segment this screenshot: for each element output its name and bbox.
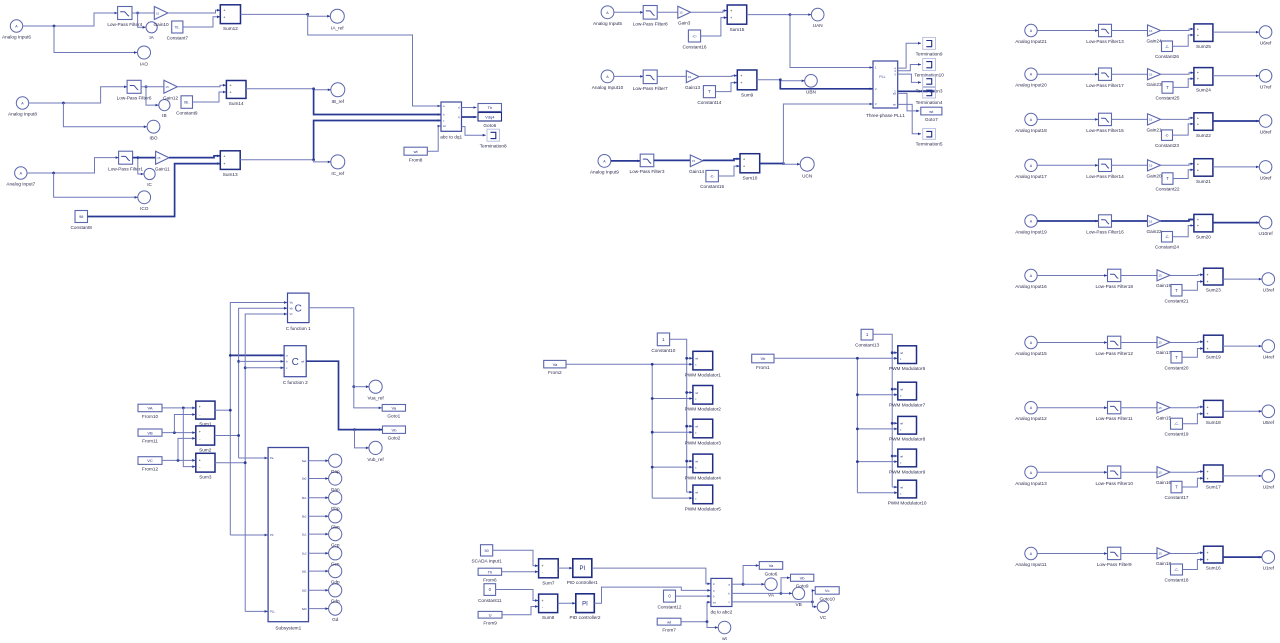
wire Gain3 to Sum15 (691, 9, 727, 12)
svg-text:Low-Pass Filter16: Low-Pass Filter16 (1086, 230, 1124, 235)
wire Analog Input18 to Low-Pass Filter15 (1037, 118, 1098, 121)
analog input Analog Input8 (8, 97, 37, 117)
wire PLL to Termination5 (898, 104, 921, 135)
svg-text:Sum15: Sum15 (730, 27, 745, 32)
junction (651, 466, 654, 469)
wire Analog Input16 to Low-Pass Filter18 (1037, 274, 1107, 277)
wire VB to Sum1 input 2 (174, 413, 195, 433)
analog input Analog Input10 (592, 70, 624, 90)
sum Sum13 (220, 151, 240, 177)
svg-text:Sum21: Sum21 (1196, 179, 1211, 184)
svg-text:SCADA Input1: SCADA Input1 (471, 558, 502, 563)
constant Constant7 (167, 21, 189, 40)
sum Sum15 (727, 5, 747, 32)
wire Analog Input8 to Low-Pass Filter6 (29, 86, 127, 104)
svg-text:C: C (292, 357, 299, 368)
svg-text:C function 1: C function 1 (286, 326, 311, 331)
wire C function 1 output (309, 308, 354, 387)
output port U9ref (1259, 161, 1272, 181)
svg-text:Low-Pass Filter15: Low-Pass Filter15 (1086, 128, 1124, 133)
svg-text:Low-Pass Filter6: Low-Pass Filter6 (117, 96, 152, 101)
wire Low-Pass Filter15 to Gain21 (1112, 118, 1148, 120)
svg-text:Analog Input5: Analog Input5 (593, 21, 622, 26)
gain Gain11 (155, 151, 170, 171)
output port U4ref (1262, 340, 1275, 360)
wire Analog Input19 to Low-Pass Filter16 (1037, 220, 1098, 223)
svg-text:Constant16: Constant16 (683, 44, 707, 49)
svg-text:VC: VC (147, 458, 153, 463)
svg-text:+: + (730, 9, 732, 13)
svg-text:From9: From9 (483, 620, 497, 625)
svg-text:Vdq4: Vdq4 (485, 115, 495, 120)
svg-text:PWM Modulator7: PWM Modulator7 (889, 403, 926, 408)
goto/from tag From1 (752, 354, 774, 370)
svg-text:Gain14: Gain14 (689, 169, 705, 174)
wire Sum1 output to bus A (215, 409, 230, 411)
svg-text:Constant9: Constant9 (176, 111, 198, 116)
svg-text:15: 15 (688, 75, 692, 79)
svg-text:Gain3: Gain3 (678, 21, 691, 26)
svg-text:15: 15 (156, 11, 160, 15)
low-pass filter Low-Pass Filter10 (1095, 466, 1133, 486)
wire abc to dq1 d output (462, 106, 477, 109)
output port IA (146, 22, 157, 41)
svg-text:Vua_ref: Vua_ref (367, 396, 384, 401)
constant Constant9 (176, 96, 198, 116)
wire signal to PWM Modulator6 (857, 357, 897, 360)
wire PID controller2 to dq to abc2 (594, 587, 710, 603)
output port U7ref (1259, 70, 1272, 90)
svg-text:Sd3: Sd3 (302, 607, 307, 611)
gain Gain21 (1146, 114, 1162, 133)
wire Subsystem1 to Gap (309, 459, 329, 462)
wire Sum10 output (760, 163, 784, 165)
svg-text:T: T (1175, 288, 1178, 293)
subsystem block abc to dq1 (440, 102, 462, 139)
svg-text:Termination10: Termination10 (914, 73, 944, 78)
goto/from tag Goto6 (759, 562, 782, 577)
wire Low-Pass Filter12 to Gain17 (1121, 342, 1157, 344)
svg-text:Analog Input12: Analog Input12 (1015, 416, 1047, 421)
svg-text:Sc1: Sc1 (302, 532, 307, 536)
svg-text:Sum19: Sum19 (1206, 355, 1221, 360)
output port Gd (329, 602, 342, 615)
svg-text:PWM Modulator9: PWM Modulator9 (889, 469, 926, 474)
svg-text:+: + (1207, 470, 1209, 474)
svg-text:VC: VC (820, 615, 827, 620)
wire Low-Pass Filter7 to Gain13 (657, 75, 686, 77)
wire enable to PWM Modulator9 (892, 455, 897, 458)
svg-text:ICO: ICO (140, 206, 149, 211)
svg-text:ref: ref (695, 391, 698, 395)
svg-text:Th: Th (487, 105, 492, 110)
wire Constant19 to Sum18 (1183, 412, 1204, 423)
analog input Analog Input16 (1015, 269, 1047, 289)
wire Sum20 to U10ref (1213, 221, 1259, 224)
svg-text:Gain12: Gain12 (163, 96, 179, 101)
svg-text:sa: sa (893, 93, 896, 96)
wire From12 to Sum3 (162, 459, 195, 462)
svg-text:Sa1: Sa1 (302, 459, 307, 463)
wire to UBN (780, 80, 804, 83)
wire signal to PWM Modulator10 (857, 491, 897, 494)
svg-text:Gain16: Gain16 (1156, 480, 1172, 485)
svg-text:Sum24: Sum24 (1196, 88, 1211, 93)
constant Constant18 (1165, 564, 1189, 582)
svg-text:Sum10: Sum10 (742, 175, 757, 180)
svg-text:Gain19: Gain19 (1156, 283, 1172, 288)
sum Sum25 (1194, 24, 1213, 49)
wire Sum7 to PID controller1 (558, 567, 572, 570)
svg-text:Goto6: Goto6 (483, 123, 496, 128)
junction (353, 428, 356, 431)
output port U8ref (1259, 115, 1272, 135)
svg-text:From11: From11 (142, 438, 158, 443)
wire enable to PWM Modulator8 (892, 422, 897, 425)
sum Sum3 (196, 453, 215, 479)
junction (651, 397, 654, 400)
wire Sum3 output to bus C (215, 462, 245, 464)
svg-text:+: + (223, 9, 225, 13)
svg-text:Sum7: Sum7 (542, 580, 555, 585)
sum Sum16 (1204, 546, 1223, 570)
wire From7 to dq to abc2 (681, 601, 710, 622)
constant SCADA Input1 (471, 545, 502, 564)
svg-text:+: + (223, 154, 225, 158)
svg-text:Gain11: Gain11 (155, 167, 170, 172)
wire Subsystem1 to Gan (309, 477, 329, 480)
PID controller PID controller2 (569, 594, 600, 620)
analog input Analog Input17 (1015, 159, 1047, 179)
output port Gbn (329, 510, 342, 523)
low-pass filter Low-Pass Filter18 (1095, 269, 1133, 289)
output port Vub_ref (367, 441, 384, 462)
wire Low-Pass Filter17 to Gain23 (1112, 73, 1148, 75)
svg-text:ref: ref (900, 422, 903, 426)
svg-text:IC: IC (147, 182, 152, 187)
svg-text:Gain23: Gain23 (1146, 82, 1162, 87)
svg-text:15: 15 (1159, 341, 1163, 345)
PWM modulator PWM Modulator8 (889, 416, 926, 441)
wire Sum9 to PLL input 2 (780, 80, 872, 90)
wire Analog Input9 to Low-Pass Filter3 (611, 160, 640, 163)
svg-text:UCN: UCN (802, 174, 812, 179)
constant Constant12 (658, 590, 682, 609)
junction (244, 366, 247, 369)
svg-text:Gd: Gd (332, 617, 339, 622)
sum Sum7 (539, 559, 559, 586)
goto/from tag From7 (657, 618, 681, 632)
svg-text:Sum16: Sum16 (1206, 566, 1221, 571)
svg-text:15: 15 (1159, 552, 1163, 556)
svg-text:Constant13: Constant13 (855, 342, 879, 347)
goto/from tag Goto7 (921, 107, 942, 122)
junction (742, 583, 745, 586)
svg-text:Sb2: Sb2 (302, 515, 307, 519)
output port UCN (800, 157, 814, 178)
svg-text:Analog Input18: Analog Input18 (1015, 128, 1047, 133)
svg-text:+: + (1197, 116, 1199, 120)
svg-text:ref: ref (695, 490, 698, 494)
constant Constant22 (1156, 173, 1180, 192)
wire Gain18 to Sum16 (1170, 551, 1203, 554)
junction (891, 455, 894, 458)
PID controller PID controller1 (567, 559, 598, 585)
subsystem block C function 1 (286, 293, 311, 331)
junction (706, 620, 709, 623)
svg-text:Analog Input13: Analog Input13 (1015, 481, 1047, 486)
junction (685, 460, 688, 463)
svg-text:Gain17: Gain17 (1156, 350, 1172, 355)
svg-text:15: 15 (1159, 274, 1163, 278)
wire enable to PWM Modulator10 (892, 486, 897, 489)
low-pass filter Low-Pass Filter4 (107, 7, 142, 27)
bus B to C function 1 input 2 (239, 307, 287, 458)
junction (685, 391, 688, 394)
svg-text:+: + (199, 405, 201, 409)
wire Subsystem1 to Gbn (309, 515, 329, 518)
wire From10 to Sum1 (162, 407, 195, 410)
svg-text:C function 2: C function 2 (283, 380, 308, 385)
svg-text:PWM Modulator6: PWM Modulator6 (889, 366, 926, 371)
svg-text:15: 15 (692, 159, 696, 163)
svg-text:+: + (1197, 122, 1199, 126)
wire signal to PWM Modulator3 (652, 431, 692, 434)
svg-text:Low-Pass Filter13: Low-Pass Filter13 (1086, 39, 1124, 44)
output port wt (718, 621, 731, 641)
svg-text:PWM Modulator2: PWM Modulator2 (685, 407, 722, 412)
gain Gain15 (1156, 402, 1172, 420)
svg-text:U4ref: U4ref (1263, 355, 1275, 360)
wire Sum8 to PID controller2 (558, 602, 576, 605)
svg-text:Vc: Vc (825, 588, 830, 593)
PWM modulator PWM Modulator9 (889, 449, 926, 474)
goto/from tag Goto2 (383, 426, 406, 441)
output port Gbp (329, 491, 342, 504)
svg-text:VB: VB (147, 430, 153, 435)
wire Analog Input10 to Low-Pass Filter7 (614, 75, 643, 78)
wire VC to Sum2 input 2 (178, 437, 195, 460)
wire signal to PWM Modulator8 (857, 428, 897, 431)
wire Low-Pass Filter16 to Gain22 (1112, 220, 1148, 222)
svg-text:Goto7: Goto7 (925, 117, 938, 122)
junction (782, 162, 785, 165)
svg-text:+: + (229, 84, 231, 88)
wire to ICO (54, 173, 138, 199)
wire Gain22 to Sum20 (1161, 218, 1194, 221)
sum Sum18 (1204, 400, 1223, 424)
svg-text:PID controller1: PID controller1 (567, 580, 598, 585)
svg-text:C: C (295, 304, 302, 315)
svg-text:+: + (223, 162, 225, 166)
svg-text:Constant20: Constant20 (1165, 365, 1189, 370)
sum Sum20 (1194, 214, 1213, 239)
svg-text:Low-Pass Filter11: Low-Pass Filter11 (1096, 416, 1134, 421)
svg-text:Analog Input21: Analog Input21 (1015, 39, 1047, 44)
svg-text:15: 15 (157, 156, 161, 160)
wire to IB (146, 87, 159, 107)
svg-text:Pb: Pb (270, 533, 274, 537)
wire C function 2 to Goto2 (306, 361, 382, 431)
wire Sum22 to U8ref (1213, 120, 1259, 123)
wire Constant14 to Sum9 (716, 81, 737, 91)
PWM modulator PWM Modulator6 (889, 346, 926, 371)
svg-text:+: + (743, 165, 745, 169)
output port IC_ref (331, 155, 345, 176)
wire Analog Input17 to Low-Pass Filter14 (1037, 164, 1098, 167)
svg-text:-C-: -C- (1165, 134, 1169, 138)
wire Low-Pass Filter6 to Gain12 (141, 86, 164, 88)
junction (177, 459, 180, 462)
constant Constant15 (700, 170, 724, 189)
wire Subsystem1 to Gdp (309, 570, 329, 573)
wire PLL to Termination3 (898, 74, 921, 84)
wire Sum9 output (757, 79, 780, 81)
svg-text:Goto6: Goto6 (765, 572, 778, 577)
svg-text:UAN: UAN (813, 23, 823, 28)
low-pass filter Low-Pass Filter13 (1086, 24, 1124, 44)
svg-text:T: T (708, 89, 711, 94)
wire Sum13 output (240, 159, 313, 161)
wire abc to dq1 q output (462, 116, 477, 119)
svg-text:wt: wt (713, 600, 716, 604)
low-pass filter Low-Pass Filter11 (1096, 401, 1134, 421)
sum Sum22 (1194, 113, 1213, 138)
svg-text:15: 15 (165, 85, 169, 89)
wire Gain23 to Sum24 (1161, 71, 1194, 74)
gain Gain18 (1156, 548, 1172, 566)
svg-text:+: + (1197, 162, 1199, 166)
junction (685, 357, 688, 360)
wire Analog Input5 to Low-Pass Filter8 (614, 11, 643, 14)
svg-text:Pa: Pa (270, 456, 274, 460)
wire Sum12 to abc to dq1 input a (308, 14, 441, 107)
wire Low-Pass Filter14 to Gain20 (1112, 164, 1148, 166)
svg-text:15: 15 (1159, 470, 1163, 474)
svg-text:Vb: Vb (392, 427, 398, 432)
sum Sum10 (740, 154, 760, 181)
svg-text:Analog Input6: Analog Input6 (2, 35, 31, 40)
svg-text:Sum23: Sum23 (1206, 288, 1221, 293)
svg-text:Constant10: Constant10 (651, 348, 675, 353)
junction (182, 407, 185, 410)
PWM modulator PWM Modulator7 (889, 382, 926, 407)
junction (352, 385, 355, 388)
svg-text:ref: ref (900, 388, 903, 392)
wire to IC (138, 158, 144, 176)
svg-text:Vub_ref: Vub_ref (367, 457, 384, 462)
output port U10ref (1259, 216, 1274, 236)
analog input Analog Input13 (1015, 466, 1047, 486)
terminator Termination3 (916, 76, 943, 94)
wire Gain12 to Sum14 (177, 84, 226, 87)
wire Analog Input6 to Low-Pass Filter4 (23, 12, 118, 26)
junction (145, 85, 148, 88)
wire to Goto6 (743, 564, 759, 584)
constant Constant8 (71, 211, 93, 230)
wire From6 to Sum7 (502, 570, 538, 573)
wire signal to PWM Modulator2 (652, 397, 692, 400)
svg-text:Va: Va (553, 362, 558, 367)
wire to IAO (54, 26, 137, 54)
svg-text:Low-Pass Filter18: Low-Pass Filter18 (1095, 284, 1133, 289)
junction (779, 78, 782, 81)
wire Sum25 to U6ref (1213, 31, 1259, 34)
gain Gain20 (1146, 160, 1162, 179)
svg-text:dq to abc2: dq to abc2 (710, 610, 732, 615)
junction (811, 601, 814, 604)
svg-text:U3ref: U3ref (1263, 288, 1275, 293)
output port U2ref (1262, 470, 1275, 490)
gain Gain16 (1156, 467, 1172, 485)
wire From7 to wt (707, 622, 718, 629)
junction (229, 354, 232, 357)
svg-text:Analog Input8: Analog Input8 (8, 112, 37, 117)
wire Sum15 to PLL input 1 (790, 15, 873, 69)
analog input Analog Input5 (593, 6, 622, 26)
svg-text:Sum17: Sum17 (1206, 484, 1221, 489)
svg-text:From8: From8 (409, 157, 423, 162)
svg-text:Low-Pass Filter3: Low-Pass Filter3 (630, 169, 665, 174)
wire Low-Pass Filter10 to Gain16 (1121, 471, 1157, 473)
svg-text:Analog Input11: Analog Input11 (1015, 562, 1047, 567)
svg-text:+: + (1197, 28, 1199, 32)
wire to VC (812, 602, 816, 608)
wire signal to PWM Modulator1 (652, 363, 692, 366)
sum Sum14 (226, 81, 246, 107)
svg-text:U5ref: U5ref (1263, 420, 1275, 425)
svg-text:-C-: -C- (710, 175, 715, 179)
analog input Analog Input15 (1015, 336, 1047, 356)
svg-text:Analog Input15: Analog Input15 (1015, 351, 1047, 356)
output port U3ref (1262, 273, 1275, 293)
wire signal to PWM Modulator9 (857, 460, 897, 463)
wire Constant17 to Sum17 (1182, 477, 1203, 487)
svg-text:98: 98 (79, 215, 83, 219)
svg-text:U2ref: U2ref (1263, 485, 1275, 490)
wire PID controller1 to dq to abc2 (592, 568, 711, 585)
svg-text:Gain24: Gain24 (1146, 39, 1162, 44)
junction (891, 351, 894, 354)
svg-text:Gain20: Gain20 (1146, 173, 1162, 178)
svg-text:+: + (1207, 412, 1209, 416)
sum Sum2 (196, 426, 215, 453)
wire Gain15 to Sum18 (1170, 406, 1203, 409)
wire From2 signal bus (566, 364, 652, 498)
wire Analog Input20 to Low-Pass Filter17 (1037, 73, 1098, 76)
svg-text:ref: ref (900, 454, 903, 458)
subsystem block Subsystem1 (268, 448, 308, 631)
svg-text:ref: ref (695, 459, 698, 463)
wire abc to dq1 to Termination8 (462, 127, 486, 137)
goto/from tag Goto9 (791, 574, 814, 588)
svg-text:Termination5: Termination5 (916, 142, 943, 147)
low-pass filter Low-Pass Filter12 (1095, 336, 1133, 356)
wire Constant24 to Sum20 (1173, 224, 1194, 237)
analog input Analog Input21 (1015, 24, 1047, 44)
low-pass filter Low-Pass Filter14 (1086, 159, 1124, 179)
wire Gain11 to Sum13 (169, 155, 220, 158)
wire C1 to Goto1 (354, 387, 382, 410)
svg-text:U1ref: U1ref (1263, 566, 1275, 571)
svg-text:IB: IB (162, 113, 166, 118)
svg-text:Low-Pass Filter9: Low-Pass Filter9 (1097, 562, 1132, 567)
svg-text:Analog Input17: Analog Input17 (1015, 174, 1047, 179)
wire Analog Input11 to Low-Pass Filter9 (1037, 552, 1107, 555)
svg-text:Constant21: Constant21 (1165, 298, 1189, 303)
wire signal to PWM Modulator5 (652, 497, 692, 500)
constant Constant25 (1156, 82, 1180, 101)
